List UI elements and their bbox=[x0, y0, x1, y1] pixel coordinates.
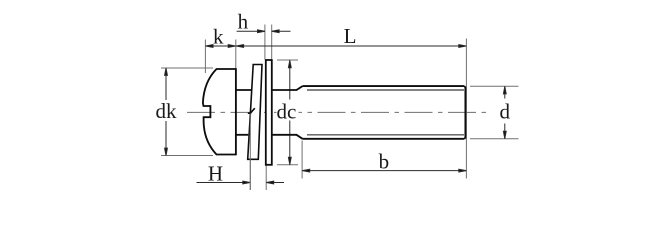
thread root lines (thin gray) bbox=[307, 90, 464, 135]
svg-text:h: h bbox=[238, 10, 249, 34]
shank bottom (between flat washer and thread) bbox=[272, 134, 297, 136]
svg-text:dk: dk bbox=[156, 99, 178, 123]
d bottom extension line bbox=[470, 138, 519, 140]
d top extension line bbox=[470, 85, 519, 87]
dimension b line bbox=[302, 170, 466, 172]
L right / b right extension line (screw tip) bbox=[465, 39, 467, 179]
extension lines (gray) bbox=[161, 25, 519, 191]
head bearing face bbox=[235, 68, 237, 155]
H left extension line bbox=[249, 114, 251, 191]
centerline (axis) bbox=[187, 111, 486, 113]
dimension H line bbox=[197, 182, 251, 184]
dc bottom extension line bbox=[277, 164, 298, 166]
spring washer (slanted split band) bbox=[248, 65, 262, 160]
dimension dc line bbox=[289, 60, 291, 99]
shank bottom (between head and spring washer) bbox=[236, 134, 248, 136]
dimension k line bbox=[206, 45, 236, 47]
H right extension line bbox=[265, 166, 267, 191]
screw body outlines (black) bbox=[203, 68, 466, 155]
pan head outline with recess notch bbox=[203, 69, 236, 155]
dimension h line bbox=[237, 30, 265, 32]
h right extension line bbox=[271, 25, 273, 60]
svg-text:b: b bbox=[379, 150, 390, 174]
h left extension line bbox=[264, 25, 266, 60]
dimension d line bbox=[504, 87, 506, 99]
svg-text:dc: dc bbox=[276, 100, 296, 124]
b left extension line bbox=[301, 141, 303, 179]
dimension L line bbox=[236, 45, 466, 47]
dk top extension line bbox=[161, 67, 213, 69]
tip end face with chamfer bbox=[464, 86, 465, 139]
dimension dk line bbox=[165, 68, 167, 100]
k right / L left extension line (head face) bbox=[235, 40, 237, 70]
thread runout top bbox=[297, 86, 303, 90]
spring washer split mark bbox=[248, 108, 255, 113]
thread crest top bbox=[303, 85, 465, 87]
k left extension line bbox=[204, 40, 206, 74]
H left extension line (over spring washer) bbox=[249, 114, 251, 191]
dc top extension line bbox=[277, 59, 298, 61]
flat washer bbox=[266, 60, 272, 165]
shank top (between flat washer and thread) bbox=[272, 89, 297, 91]
thread runout bottom bbox=[297, 135, 303, 139]
white backing for dc text bbox=[277, 100, 299, 118]
dimension lines (dark) bbox=[165, 30, 507, 184]
svg-text:H: H bbox=[208, 161, 223, 185]
svg-text:d: d bbox=[500, 99, 511, 123]
shank top (between head and spring washer) bbox=[236, 89, 252, 91]
svg-text:L: L bbox=[344, 24, 357, 48]
thread crest bottom bbox=[303, 138, 465, 140]
dk bottom extension line bbox=[161, 155, 213, 157]
svg-text:k: k bbox=[213, 25, 224, 49]
